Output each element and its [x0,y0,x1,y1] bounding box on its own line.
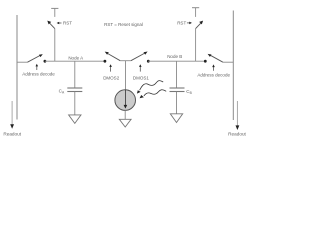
svg-text:CA: CA [59,89,65,95]
light ray arrow upper [137,81,163,94]
capacitor CB wire from node B [176,61,178,87]
wire stub right bus to address switch [223,61,233,63]
control arrow address decode right [212,64,215,70]
wire photodiode to ground [124,110,126,119]
wire node B [148,60,205,62]
wire CB to ground [176,92,178,114]
ground below CA [69,115,81,124]
svg-text:Node A: Node A [68,55,83,60]
wire left column bus [16,15,18,120]
wire RST switch right to node B [195,28,197,61]
wire right column bus [232,11,234,121]
switch address decode right (arm + arrowhead) [208,54,223,62]
svg-text:Node B: Node B [167,54,182,59]
svg-text:Address decode: Address decode [22,72,55,77]
node B dot left [147,60,150,63]
power rail right (T-bar) [192,7,199,9]
wire VDD to RST switch right [195,8,197,17]
svg-text:Readout: Readout [3,131,21,136]
control arrow address decode left [36,64,39,70]
svg-text:DMOS1: DMOS1 [133,75,150,80]
node A dot left [44,60,47,63]
power rail left (T-bar) [51,7,58,9]
capacitor CA [67,88,82,92]
control arrow DMOS1 [139,64,142,71]
control arrow RST right [187,22,192,25]
wire node A [45,60,105,62]
capacitor CB [170,88,185,92]
ground below CB [170,114,182,123]
switch address decode left (arm + arrowhead) [28,54,43,62]
svg-text:RST = Reset signal: RST = Reset signal [104,22,143,27]
ground below photodiode [119,119,131,127]
node B dot right [204,60,207,63]
svg-text:DMOS2: DMOS2 [103,75,120,80]
node A dot right [104,60,107,63]
svg-text:CB: CB [186,89,192,95]
wire RST switch left to node A [54,28,56,61]
wire CA to ground [74,92,76,115]
control arrow RST left [57,22,62,25]
wire switches to photodiode [125,61,127,90]
switch RST right (arm + arrowhead) [196,21,204,29]
switch RST left (arm + arrowhead) [47,21,55,29]
svg-text:Readout: Readout [228,131,246,136]
readout arrow right [236,101,240,130]
readout arrow left [10,101,14,129]
wire stub left bus to address switch [17,61,28,63]
svg-text:Address decode: Address decode [197,72,230,77]
wire VDD to RST switch left [54,8,56,17]
photodiode D1 (current-source circle) [115,90,136,111]
control arrow DMOS2 [109,64,112,71]
capacitor CA wire from node A [74,61,76,87]
switch DMOS2 bar [120,60,131,62]
svg-text:RST: RST [63,21,72,26]
light ray arrow lower [140,90,167,98]
svg-text:RST: RST [177,21,186,26]
switch DMOS1 (right arm + arrowhead) [131,52,148,61]
switch DMOS2 (left arm + arrowhead) [105,52,121,61]
